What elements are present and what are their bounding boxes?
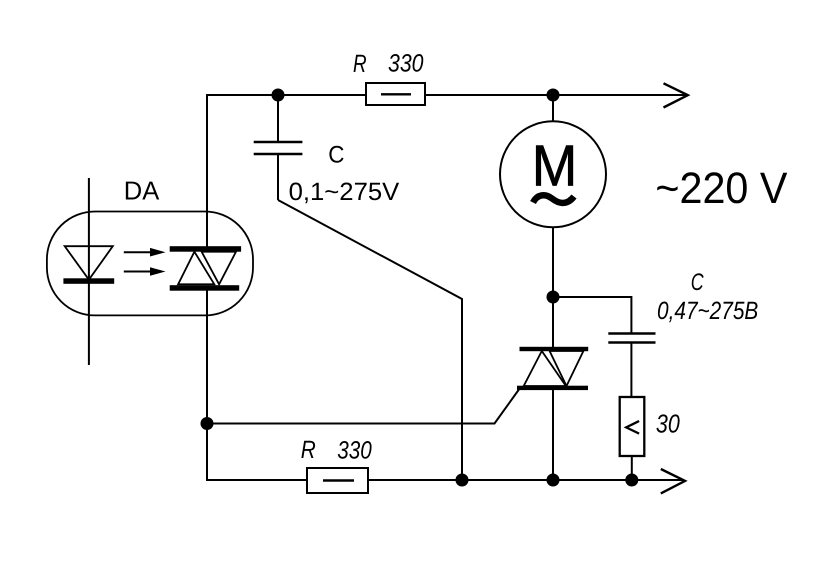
wire: C1 to bottom rail (diagonal + vertical) [278,200,462,480]
capacitor C2 [608,334,655,398]
junction node: triac / bottom rail [547,474,560,487]
arrow: bottom rail output (neutral) [661,469,685,493]
LED (optocoupler input) [63,178,114,365]
svg-text:R: R [353,50,367,78]
svg-text:0,1~275V: 0,1~275V [289,178,400,206]
wire: snubber branch top [553,297,631,333]
junction node: gate / opto lead [201,417,214,430]
svg-text:C: C [328,142,344,169]
svg-text:DA: DA [124,176,160,206]
junction node: C1 tap on top rail [272,89,285,102]
junction node: snubber tap [547,291,560,304]
svg-text:M: M [532,133,578,198]
junction node: varistor / bottom rail [625,474,638,487]
svg-text:330: 330 [337,437,372,465]
light arrow 2 [124,267,166,276]
wire: bottom rail right [368,479,684,481]
light arrow 1 [124,248,166,257]
svg-text:30: 30 [656,409,680,439]
resistor R1 [366,83,425,105]
svg-text:C: C [691,269,704,296]
wire: opto output bottom lead + bottom rail left [207,290,307,480]
wire: triac gate [207,390,519,424]
wire: top rail right [425,94,686,96]
svg-text:~220 V: ~220 V [655,164,788,213]
wire: varistor to bottom rail [631,456,633,480]
motor M1 [500,95,606,227]
photo-triac (optocoupler output) [170,246,241,291]
junction node: C1 branch / bottom rail [456,474,469,487]
resistor R2 [307,468,368,493]
capacitor C1 [254,95,303,200]
svg-text:R: R [301,436,316,464]
varistor RU1 [620,397,645,456]
svg-text:0,47~275В: 0,47~275В [657,297,758,325]
optocoupler DA body [47,212,253,316]
arrow: top rail output (phase) [664,83,688,107]
triac VS1 [517,347,588,480]
wire: motor to triac [552,227,554,348]
svg-text:330: 330 [388,49,424,77]
wire: top rail left + optocoupler output top lead [207,95,366,247]
junction node: motor tap on top rail [547,89,560,102]
